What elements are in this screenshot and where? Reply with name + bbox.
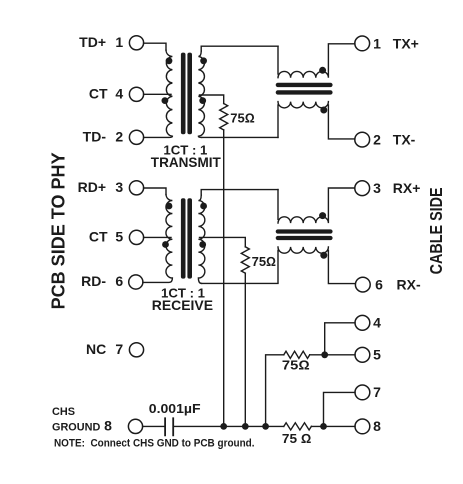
- svg-text:CHS: CHS: [52, 406, 75, 418]
- choke L1 bottom winding: [278, 102, 355, 139]
- wire T1 secondary bottom to choke L1 bottom: [202, 136, 279, 138]
- wire R2 bottom to ground bus: [244, 273, 246, 426]
- polarity dot L1 bottom: [320, 107, 327, 114]
- resistor R2 75ohm (receive): [241, 247, 249, 273]
- svg-text:75Ω: 75Ω: [282, 358, 310, 373]
- svg-text:RD+: RD+: [78, 179, 106, 195]
- polarity dot T1 secondary top: [200, 57, 207, 64]
- svg-text:7: 7: [373, 384, 381, 400]
- pin 4 terminal: [355, 315, 370, 330]
- junction dot bus at R1 line: [220, 423, 227, 430]
- polarity dot T2 secondary lower: [199, 241, 206, 248]
- svg-text:75 Ω: 75 Ω: [282, 431, 311, 446]
- svg-text:3: 3: [373, 180, 381, 196]
- polarity dot T1 primary top: [166, 57, 173, 64]
- transformer T1 primary winding: [144, 50, 173, 137]
- svg-text:6: 6: [375, 276, 383, 292]
- transformer T2 secondary winding: [198, 195, 204, 283]
- svg-text:0.001µF: 0.001µF: [149, 401, 201, 416]
- svg-text:5: 5: [115, 229, 123, 245]
- pin 8 terminal: [355, 419, 370, 434]
- svg-text:8: 8: [104, 418, 112, 434]
- wire T2 secondary top to choke L2: [201, 190, 278, 196]
- svg-text:CABLE SIDE: CABLE SIDE: [426, 187, 446, 274]
- pin 4 CT terminal: [129, 87, 143, 101]
- svg-text:RECEIVE: RECEIVE: [152, 297, 213, 313]
- junction dot bus at pin7 branch: [320, 423, 327, 430]
- wire T1 secondary center tap to R1: [200, 95, 224, 104]
- svg-text:CT: CT: [89, 229, 108, 245]
- svg-text:4: 4: [373, 315, 381, 331]
- wire junction to pin7: [324, 392, 356, 426]
- wire T2 secondary bottom to choke L2 bottom: [202, 282, 279, 284]
- wire pin3 to T2 primary top: [144, 188, 166, 195]
- capacitor C1 0.001uF: [165, 418, 173, 435]
- pin 2 TD- terminal: [129, 130, 143, 144]
- svg-text:NC: NC: [86, 341, 106, 357]
- wire R4 to pin8: [311, 425, 355, 427]
- wire T2 secondary center tap to R2: [200, 237, 246, 246]
- svg-text:5: 5: [373, 347, 381, 363]
- wire pin4 to T1 primary center tap: [144, 93, 171, 95]
- svg-text:8: 8: [373, 418, 381, 434]
- svg-text:CT: CT: [89, 85, 108, 101]
- wire pin1 to T1 primary top: [144, 43, 166, 50]
- pin 5 CT terminal: [129, 230, 143, 244]
- wire pin8 to capacitor C1: [143, 425, 166, 427]
- svg-text:RX-: RX-: [397, 276, 421, 292]
- polarity dot L2 top: [319, 212, 326, 219]
- polarity dot T2 primary top: [166, 203, 173, 210]
- wire R3 to pin5: [310, 354, 355, 356]
- resistor R4 75ohm (bus, lower): [284, 423, 312, 430]
- svg-text:4: 4: [115, 85, 123, 101]
- svg-text:RD-: RD-: [81, 273, 106, 289]
- svg-text:TRANSMIT: TRANSMIT: [151, 154, 221, 170]
- svg-text:2: 2: [115, 128, 123, 144]
- svg-text:75Ω: 75Ω: [252, 254, 276, 269]
- choke L2 core: [276, 229, 333, 240]
- choke L2 top winding: [278, 188, 355, 223]
- svg-text:1: 1: [373, 35, 381, 51]
- svg-text:TD-: TD-: [83, 128, 107, 144]
- pin 6 RX- terminal: [355, 277, 370, 292]
- svg-text:TX+: TX+: [393, 35, 419, 51]
- resistor R1 75ohm (transmit): [220, 104, 228, 130]
- wire bus branch up to R3: [266, 355, 284, 427]
- junction dot bus at R2 line: [242, 423, 249, 430]
- pin 3 RD+ terminal: [129, 181, 143, 195]
- choke L1 top winding: [278, 44, 355, 78]
- polarity dot L2 bottom: [320, 252, 327, 259]
- svg-text:GROUND: GROUND: [52, 422, 100, 434]
- wire junction to pin4: [325, 323, 355, 355]
- svg-text:75Ω: 75Ω: [230, 111, 254, 126]
- svg-text:3: 3: [115, 179, 123, 195]
- pin 1 TD+ terminal: [129, 36, 143, 50]
- junction dot bus at R3 branch: [262, 423, 269, 430]
- resistor R3 75ohm (bus, upper): [284, 351, 310, 358]
- transformer T1 secondary winding: [198, 51, 204, 137]
- svg-text:7: 7: [115, 341, 123, 357]
- pin 6 RD- terminal: [129, 275, 143, 289]
- polarity dot T1 secondary lower: [199, 97, 206, 104]
- wire R1 bottom to ground bus: [223, 130, 225, 427]
- polarity dot T2 secondary top: [200, 203, 207, 210]
- ground bus wire: [173, 425, 284, 427]
- svg-text:2: 2: [373, 131, 381, 147]
- polarity dot L1 top: [319, 67, 326, 74]
- svg-text:6: 6: [115, 273, 123, 289]
- pin 7 terminal: [355, 385, 370, 400]
- junction dot pin5 line: [321, 351, 328, 358]
- wire pin5 to T2 primary center tap: [144, 236, 171, 238]
- pin 8 CHS GROUND terminal: [128, 419, 142, 433]
- pin 2 TX- terminal: [355, 132, 370, 147]
- pin 3 RX+ terminal: [355, 181, 370, 196]
- svg-text:TD+: TD+: [79, 34, 106, 50]
- choke L1 core: [276, 83, 333, 95]
- choke L2 bottom winding: [278, 247, 355, 284]
- polarity dot T1 primary lower: [162, 97, 169, 104]
- pin 5 terminal: [355, 347, 370, 362]
- svg-text:NOTE: Connect CHS GND to PCB: NOTE: Connect CHS GND to PCB ground.: [54, 437, 255, 449]
- svg-text:1: 1: [115, 34, 123, 50]
- svg-text:TX-: TX-: [393, 131, 416, 147]
- polarity dot T2 primary lower: [162, 241, 169, 248]
- wire T1 secondary top to choke L1: [201, 46, 278, 51]
- svg-text:RX+: RX+: [393, 180, 421, 196]
- transformer T2 primary winding: [143, 195, 173, 283]
- transformer T2 core: [181, 198, 192, 278]
- pin 7 NC terminal: [129, 343, 143, 357]
- svg-text:PCB SIDE TO PHY: PCB SIDE TO PHY: [48, 152, 68, 309]
- pin 1 TX+ terminal: [355, 36, 370, 51]
- transformer T1 core: [181, 53, 192, 135]
